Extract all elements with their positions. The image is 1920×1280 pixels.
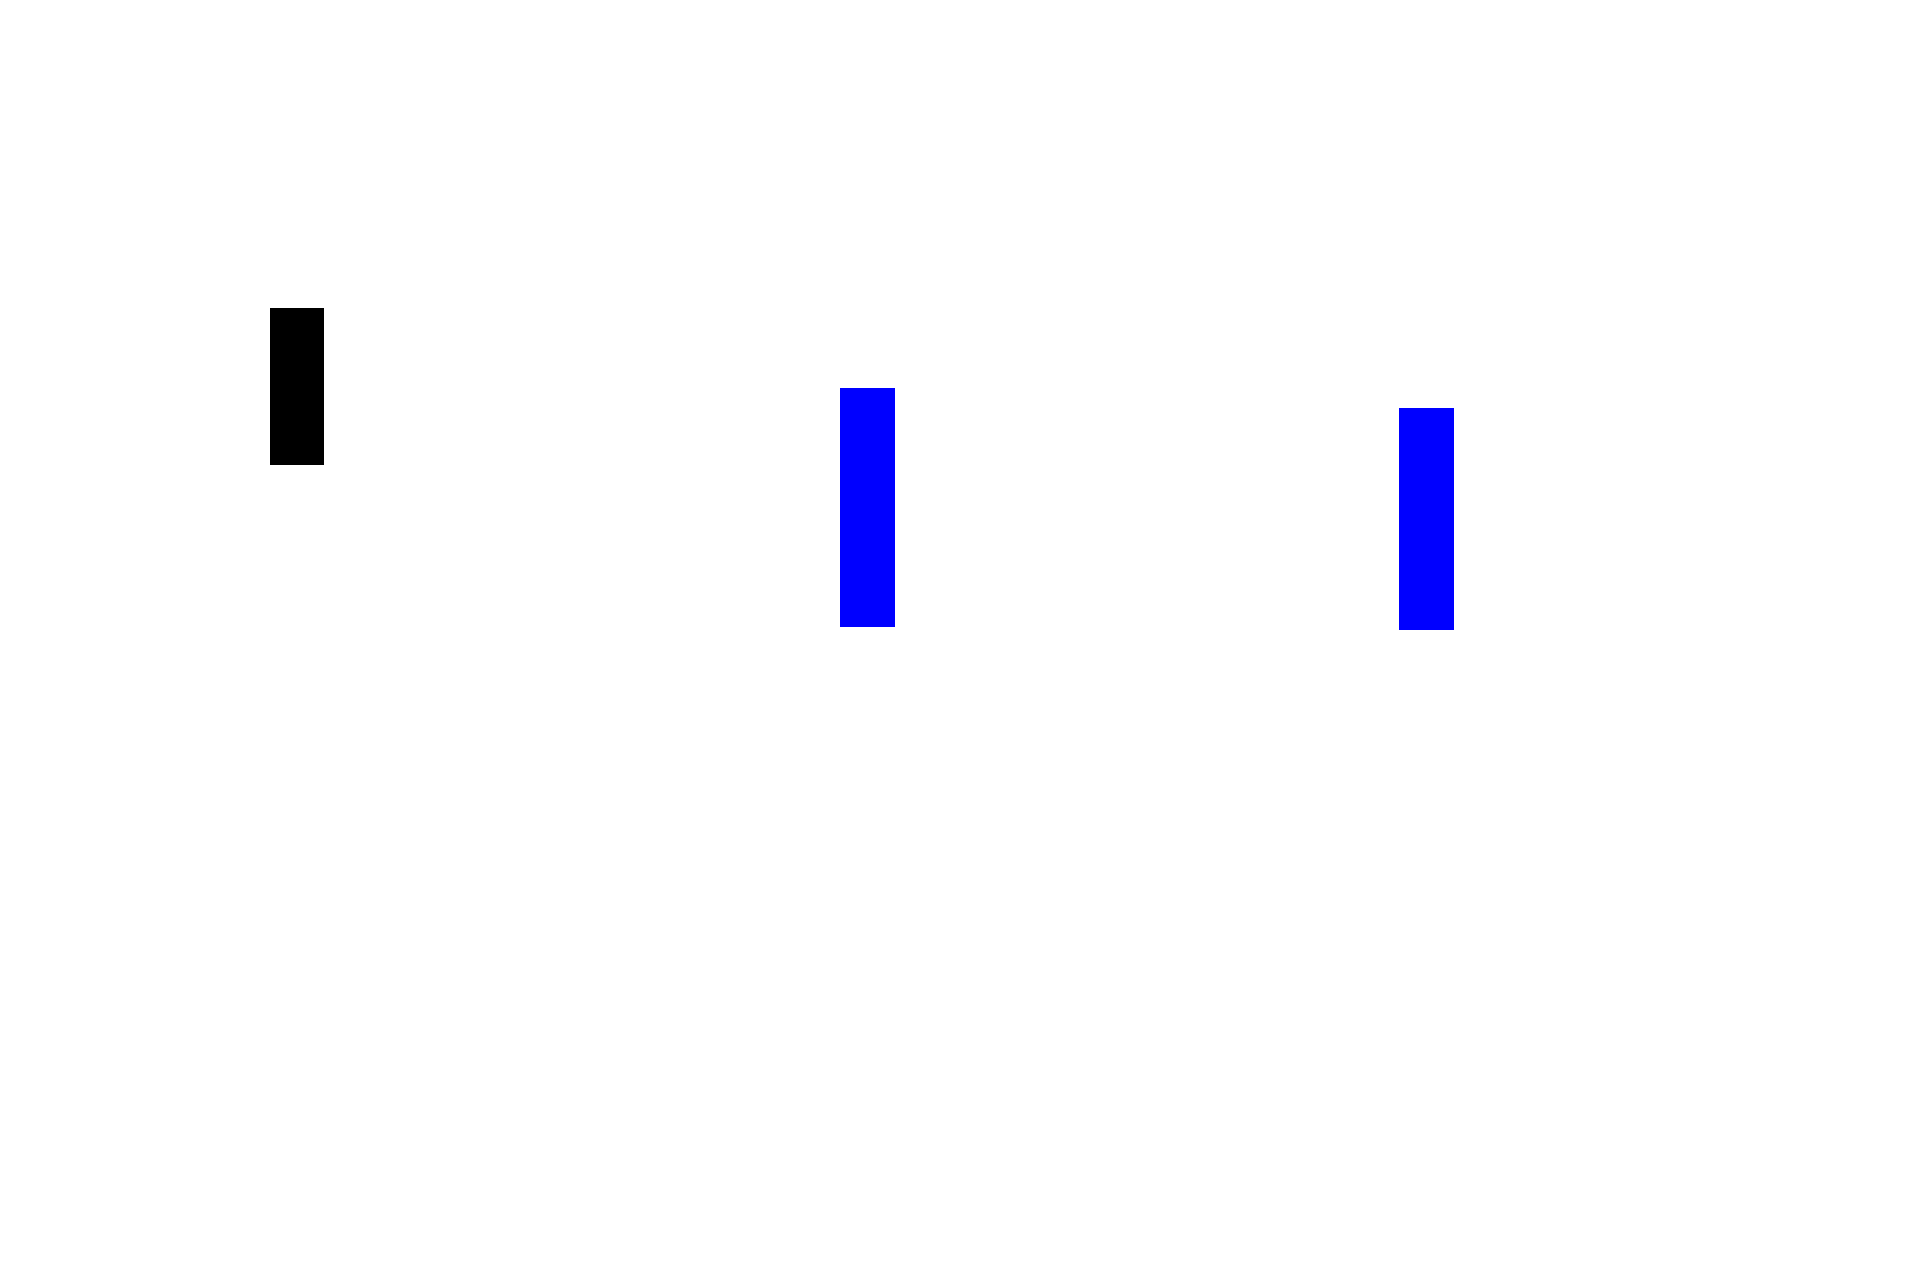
bar 2 (blue series) (840, 388, 895, 627)
bar 3 (blue series) (1399, 408, 1454, 630)
bar 1 (black series) (270, 308, 324, 465)
